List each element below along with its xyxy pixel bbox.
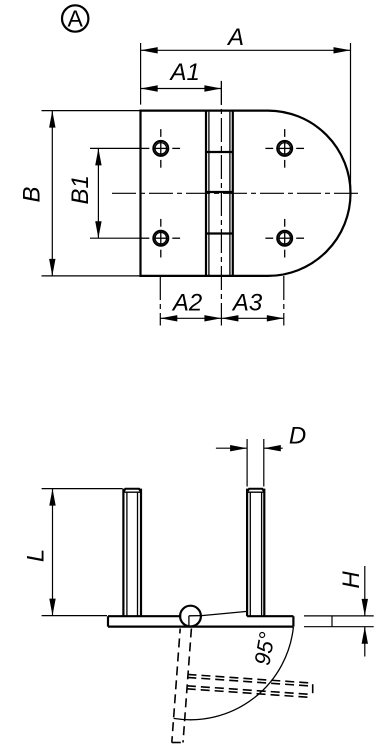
svg-text:B1: B1 [67, 175, 94, 204]
svg-text:A2: A2 [171, 290, 202, 317]
svg-text:B: B [19, 186, 46, 202]
svg-text:A3: A3 [231, 290, 263, 317]
svg-text:D: D [289, 422, 306, 449]
svg-text:A: A [226, 24, 244, 51]
svg-text:A: A [68, 6, 84, 32]
svg-text:L: L [23, 549, 50, 562]
svg-text:A1: A1 [169, 59, 200, 86]
svg-text:H: H [338, 571, 365, 589]
